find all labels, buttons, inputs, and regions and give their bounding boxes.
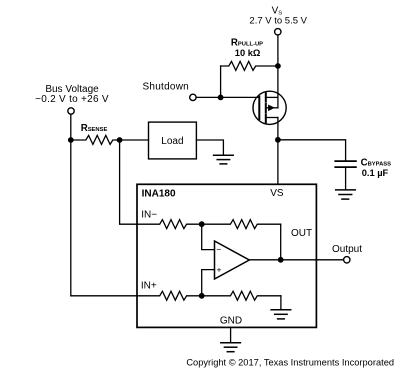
wire IN+ to opamp plus	[202, 270, 215, 296]
wire bottom resistor to ground	[280, 296, 282, 310]
terminal Shutdown	[190, 94, 196, 100]
resistor RPULL-UP	[221, 61, 278, 70]
ground GND pin	[221, 343, 241, 352]
junction IN+ node	[199, 293, 205, 299]
load box	[149, 122, 197, 159]
wire opamp output	[249, 259, 316, 261]
transistor Q1 PMOS	[253, 91, 286, 124]
resistor feedback	[202, 220, 281, 229]
op-amp U1A	[215, 241, 250, 279]
node Shutdown label	[143, 81, 189, 92]
junction pullup-right	[275, 63, 281, 69]
svg-text:10 kΩ: 10 kΩ	[235, 48, 261, 58]
copyright note	[186, 358, 394, 368]
svg-text:+: +	[217, 265, 222, 275]
pin GND label	[220, 315, 242, 326]
wire to load	[120, 139, 149, 141]
terminal VS supply	[275, 29, 281, 35]
junction shutdown-gate	[218, 95, 224, 101]
wire feedback to output node	[280, 224, 282, 260]
svg-text:OUT: OUT	[291, 228, 312, 239]
wire bus-left down to IN+	[71, 140, 137, 296]
wire drain vertical	[277, 66, 279, 108]
capacitor CBYPASS value label	[361, 158, 392, 178]
resistor RPULL-UP value label	[231, 37, 263, 57]
svg-text:VS: VS	[270, 188, 284, 199]
ground load	[214, 155, 234, 164]
wire bus-right down to IN-	[120, 140, 137, 224]
ground bypass	[336, 190, 356, 199]
svg-text:IN−: IN−	[141, 209, 157, 220]
IC U1 INA180 box	[137, 184, 316, 327]
pin OUT label	[291, 228, 312, 239]
terminal Bus Voltage	[68, 108, 74, 114]
wire cap to ground	[345, 167, 347, 190]
svg-text:Shutdown: Shutdown	[143, 81, 189, 92]
resistor gain bottom	[202, 291, 281, 300]
svg-text:2.7 V to 5.5 V: 2.7 V to 5.5 V	[249, 15, 307, 26]
terminal Output	[344, 257, 350, 263]
wire bus terminal down	[70, 115, 72, 140]
capacitor CBYPASS	[335, 161, 356, 167]
wire shutdown to gate	[197, 96, 259, 98]
junction output node	[278, 257, 284, 263]
wire VS terminal to pullup junction	[277, 35, 279, 66]
junction IN- node	[199, 221, 205, 227]
resistor input IN-	[137, 220, 202, 229]
svg-text:−: −	[216, 245, 221, 255]
svg-text:IN+: IN+	[141, 281, 157, 292]
ground internal	[271, 310, 291, 319]
resistor RSENSE label	[81, 123, 108, 134]
junction VS node	[275, 137, 281, 143]
pin IN- label	[141, 209, 157, 220]
wire to output terminal	[316, 259, 343, 261]
svg-text:−0.2 V to +26 V: −0.2 V to +26 V	[35, 94, 109, 105]
resistor RSENSE	[71, 135, 120, 144]
svg-text:Copyright © 2017, Texas Instru: Copyright © 2017, Texas Instruments Inco…	[186, 358, 394, 368]
svg-text:GND: GND	[220, 315, 242, 326]
node VS supply label	[249, 6, 307, 27]
svg-text:0.1 µF: 0.1 µF	[362, 168, 389, 178]
wire source to VS node	[277, 118, 279, 140]
svg-text:INA180: INA180	[142, 189, 176, 200]
pin VS label	[270, 188, 284, 199]
pin IN+ label	[141, 281, 157, 292]
node Bus Voltage label	[35, 84, 109, 105]
resistor input IN+	[137, 291, 202, 300]
wire pullup left to shutdown row	[220, 66, 222, 97]
wire load to ground	[196, 140, 223, 155]
wire VS node to bypass cap	[278, 140, 346, 161]
junction bus-left	[68, 137, 74, 143]
wire IN- to opamp minus	[202, 224, 215, 249]
junction bus-right	[117, 137, 123, 143]
svg-text:Load: Load	[161, 136, 183, 147]
node Output label	[332, 244, 362, 255]
wire VS node to VS pin	[277, 140, 279, 185]
svg-text:Output: Output	[332, 244, 362, 255]
wire GND pin down	[230, 327, 232, 342]
